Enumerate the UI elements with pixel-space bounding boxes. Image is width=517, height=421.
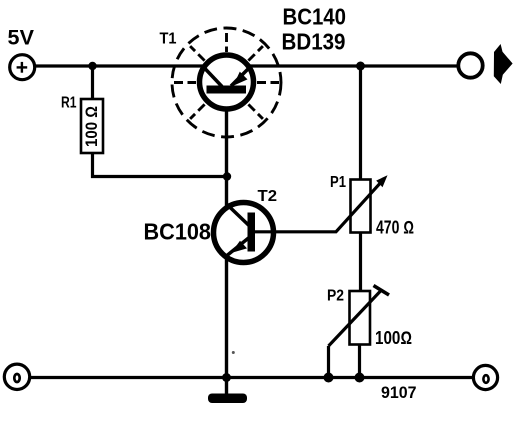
svg-text:100 Ω: 100 Ω [83, 106, 101, 147]
svg-text:BC108: BC108 [144, 219, 212, 245]
svg-text:BC140: BC140 [283, 4, 347, 30]
svg-text:T1: T1 [160, 31, 177, 48]
svg-text:100Ω: 100Ω [375, 328, 412, 348]
svg-text:R1: R1 [61, 95, 77, 112]
svg-text:5V: 5V [8, 26, 35, 50]
svg-text:470 Ω: 470 Ω [376, 218, 414, 238]
svg-text:P1: P1 [330, 174, 346, 191]
svg-text:T2: T2 [258, 188, 278, 205]
svg-text:BD139: BD139 [282, 29, 346, 55]
svg-text:P2: P2 [327, 288, 344, 305]
svg-text:9107: 9107 [381, 383, 417, 402]
